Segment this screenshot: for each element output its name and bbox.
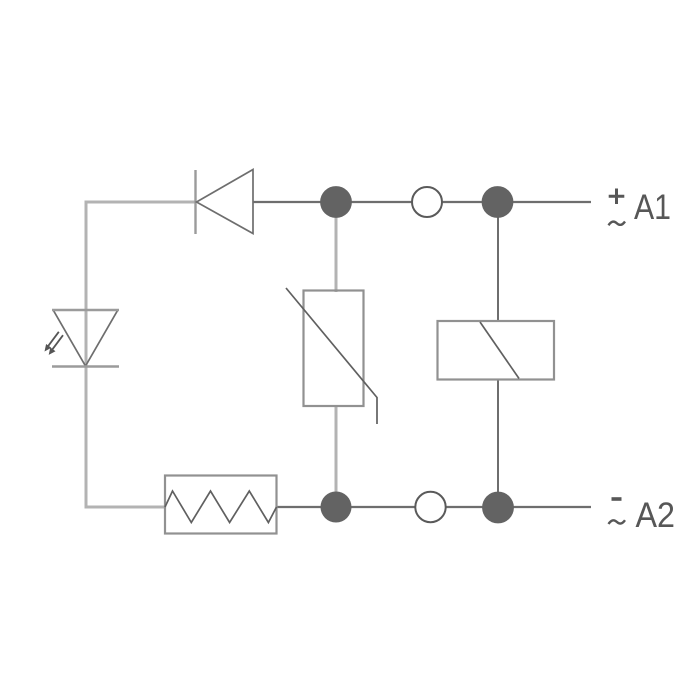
terminal node: bottom open xyxy=(415,492,445,522)
wire: top rail (diode to A1) xyxy=(253,201,591,203)
resistor R1 xyxy=(165,476,277,534)
junction node: top relay xyxy=(482,186,514,218)
light arrow 2 xyxy=(52,335,63,350)
junction node: bottom relay xyxy=(482,492,514,524)
polarity mark: A2 tilde xyxy=(609,520,626,524)
wire: left loop (diode cathode to LED to resistor), light gray xyxy=(86,202,195,507)
terminal node: top open xyxy=(412,187,442,217)
diode D1 (freewheeling, top branch, pointing left) xyxy=(196,170,254,235)
junction node: bottom varistor xyxy=(321,492,352,523)
relay coil K1 xyxy=(438,321,555,380)
wire: relay top stub xyxy=(497,202,499,321)
wire: relay bottom stub xyxy=(497,380,499,522)
polarity mark: A2 minus xyxy=(612,497,622,501)
wire: bottom rail (resistor to A2) xyxy=(277,506,591,508)
wire: varistor top stub xyxy=(335,187,338,292)
varistor RU (VDR) xyxy=(286,288,377,424)
light arrow 1 xyxy=(48,332,59,347)
svg-text:A2: A2 xyxy=(636,495,676,535)
svg-text:A1: A1 xyxy=(634,187,671,227)
LED D2 (light emitting diode, left branch) xyxy=(45,310,120,367)
polarity mark: A1 plus xyxy=(609,189,625,205)
wire: varistor bottom stub xyxy=(335,405,338,521)
junction node: top varistor xyxy=(320,186,352,218)
polarity mark: A1 tilde xyxy=(609,222,626,226)
